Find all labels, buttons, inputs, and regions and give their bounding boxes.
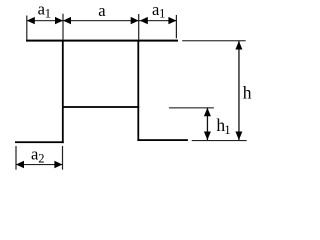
right web (stem)	[137, 41, 139, 142]
label a	[98, 1, 106, 20]
bottom-right flange	[137, 139, 188, 141]
tick T1 (top left, x=26.8)	[26, 16, 27, 40]
top flange	[26, 40, 178, 42]
svg-text:1: 1	[159, 7, 165, 21]
dimension h: vertical line and arrows	[235, 41, 242, 140]
svg-text:a: a	[98, 1, 106, 20]
dimension a1 left: line and arrows	[27, 17, 63, 24]
tick B1 (bottom left, x=16)	[15, 146, 16, 170]
dimension a1 right: line and arrows	[139, 17, 177, 24]
label a1 right	[152, 0, 165, 21]
label h	[243, 82, 252, 102]
extension line middle right	[169, 107, 214, 108]
svg-text:2: 2	[38, 151, 44, 165]
label h1	[216, 115, 230, 137]
middle web line	[62, 106, 139, 108]
svg-text:h: h	[243, 82, 252, 102]
bottom-left flange	[15, 141, 64, 143]
svg-text:1: 1	[224, 123, 230, 137]
dimension a: line and arrows	[63, 17, 139, 24]
dimension h1: vertical line and arrows	[204, 108, 211, 140]
label a1 left	[38, 0, 51, 20]
tick T3 (top, x=138.7)	[138, 14, 139, 40]
extension line bottom right	[192, 140, 247, 141]
label a2	[31, 145, 45, 166]
tick T2 (top, x=63)	[62, 14, 63, 40]
tick B2 (bottom, x=62.5)	[62, 146, 63, 170]
svg-text:1: 1	[45, 6, 51, 20]
dimension a2: line and arrows	[16, 161, 62, 168]
left web (stem)	[62, 41, 64, 144]
tick T4 (top right, x=176.4)	[176, 15, 177, 38]
extension line top right	[182, 40, 246, 41]
